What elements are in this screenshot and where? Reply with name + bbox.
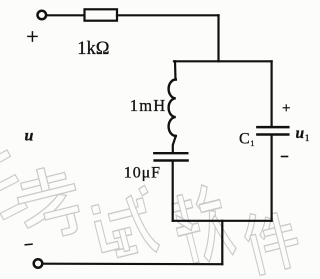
wire mid drop [221,221,223,264]
watermark char SHI [89,185,163,265]
svg-text:1: 1 [305,133,310,143]
svg-text:+: + [26,24,38,49]
svg-text:1: 1 [250,138,254,148]
watermark char RUAN [168,181,238,268]
svg-text:C: C [239,131,250,148]
watermark char JIAN [239,204,303,277]
capacitor 10μF [154,152,187,154]
wire [217,15,219,61]
watermark fragment at left edge [0,148,29,220]
svg-text:+: + [282,101,290,117]
wire [173,136,176,152]
capacitor C1 [257,126,288,129]
wire right branch lower [271,136,273,221]
minus sign bottom-left [25,243,32,246]
wire [47,14,84,16]
svg-text:10μF: 10μF [124,165,161,182]
wire bottom node [173,220,272,222]
wire [117,14,219,16]
wire right branch upper [271,61,273,126]
svg-text:u: u [296,125,305,142]
wire [174,61,177,79]
watermark char KAO [12,162,86,245]
wire bottom [43,263,222,266]
inductor 1mH [169,80,176,136]
wire [172,162,174,221]
terminal top-left [38,11,47,20]
terminal bottom-left [34,259,43,268]
svg-text:1kΩ: 1kΩ [77,39,109,59]
svg-text:1mH: 1mH [130,96,167,115]
svg-text:u: u [25,128,34,145]
minus sign right [282,156,288,158]
wire top node [174,60,272,62]
resistor 1kΩ [85,9,118,20]
